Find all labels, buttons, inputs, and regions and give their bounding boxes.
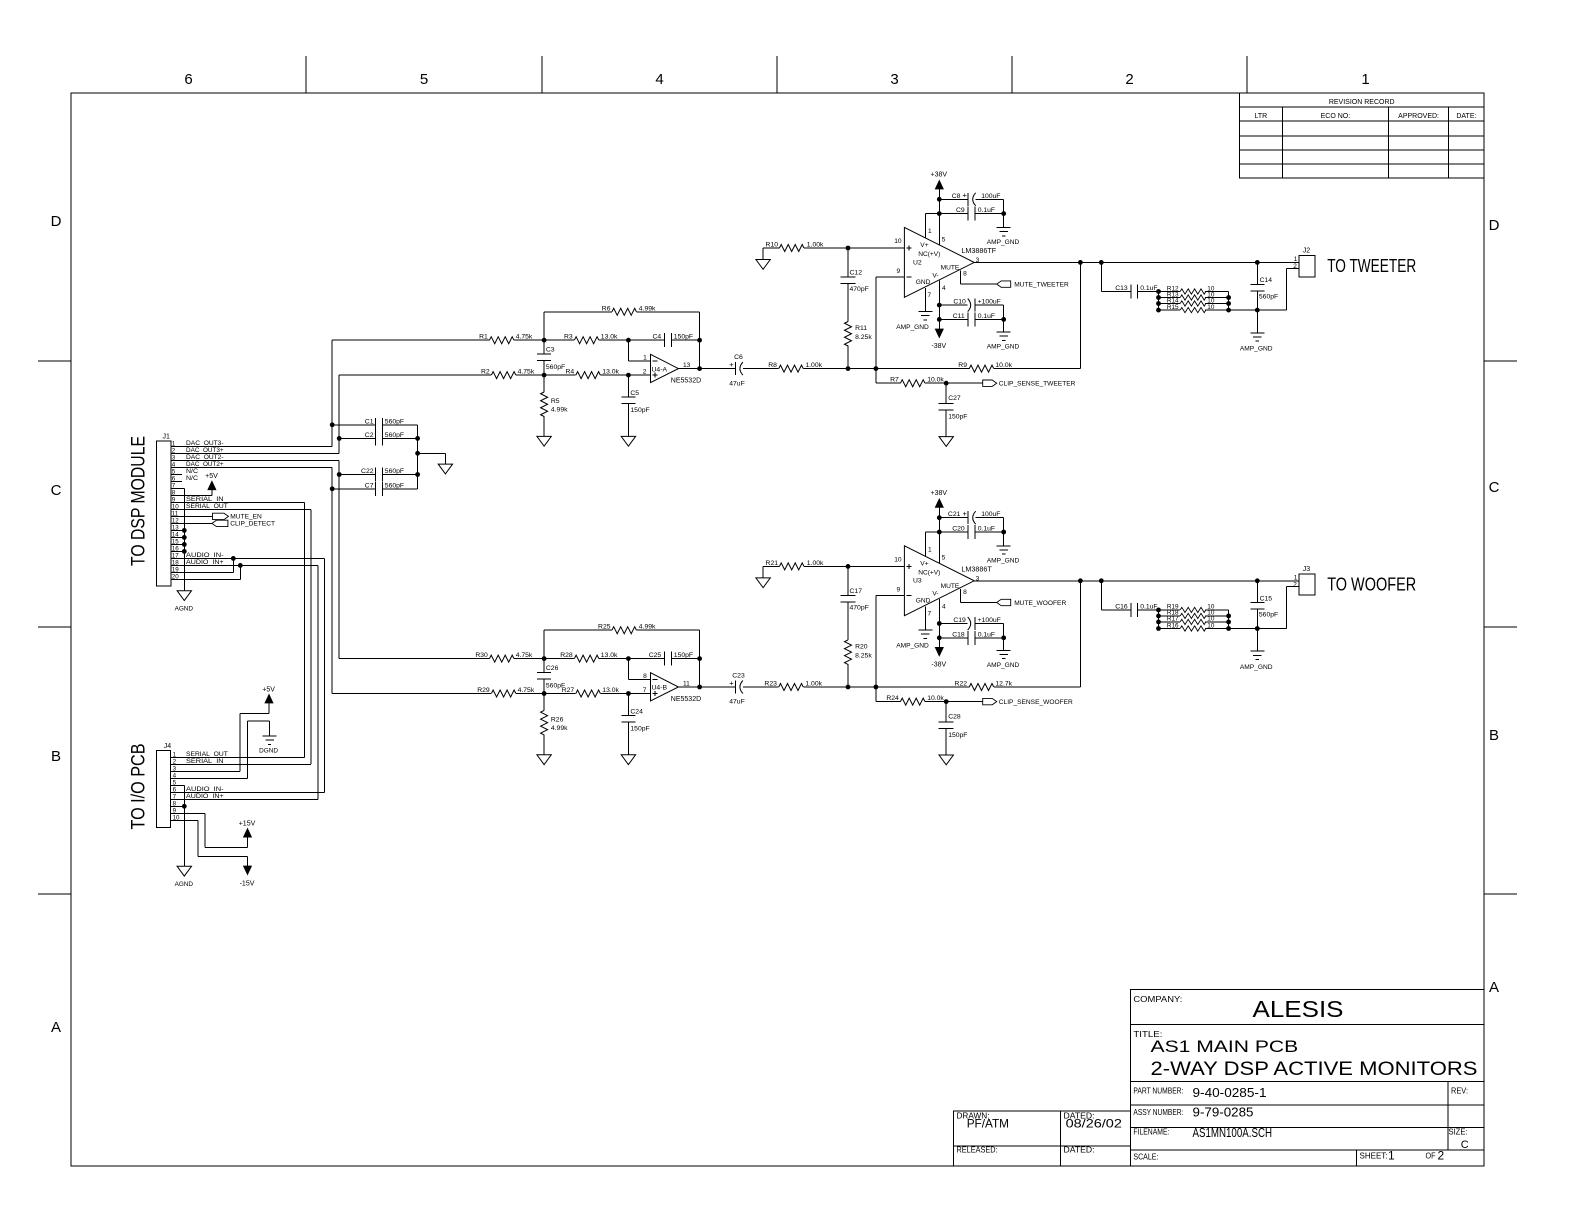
label TO WOOFER [1327,573,1416,594]
power +5V at J4 [262,686,275,703]
svg-text:1: 1 [1294,256,1298,263]
svg-text:560pF: 560pF [385,468,404,475]
svg-text:C12: C12 [850,270,863,277]
power +38V [931,490,948,508]
resistor R19 10 [1159,604,1229,613]
svg-text:12.7k: 12.7k [995,681,1012,688]
bus A DAC_OUT3- vertical to R1 and C1 [330,340,335,446]
wire J1 pin3 DAC_OUT2- to bus C [171,459,339,461]
wire J4 pin10 to -15V [171,820,248,866]
svg-text:150pF: 150pF [674,334,693,341]
svg-text:AGND: AGND [175,881,194,888]
capacitor C2 560pF [339,431,417,445]
svg-text:R8: R8 [768,362,777,369]
capacitor C16 0.1uF zobel [1101,581,1158,617]
svg-text:C25: C25 [649,652,662,659]
wire ladder left rail [1156,289,1161,312]
svg-text:LM3886TF: LM3886TF [961,246,996,255]
svg-text:C16: C16 [1115,603,1128,610]
resistor R2 4.75k [481,369,535,379]
label TO I/O PCB [129,744,150,830]
svg-text:R30: R30 [475,652,488,659]
svg-text:J3: J3 [1303,566,1311,573]
wire R30 to node A [514,656,546,661]
wire J1 pin6 stub [171,480,182,482]
zone row letters left [51,213,62,1036]
svg-text:R10: R10 [766,242,779,249]
svg-text:MUTE_EN: MUTE_EN [230,514,262,521]
svg-text:13.0k: 13.0k [601,334,618,341]
svg-text:U4-B: U4-B [652,685,668,692]
wire ladder left rail [1156,608,1161,631]
ground under C27 [939,437,953,447]
filename row [1133,1126,1468,1151]
wire pin 1 to bypass rail [925,532,939,556]
svg-text:TO DSP MODULE: TO DSP MODULE [129,436,150,566]
svg-text:AMP_GND: AMP_GND [987,343,1020,350]
resistor R12 10 [1159,285,1229,294]
svg-text:MUTE: MUTE [941,583,960,590]
connector J4 TO I/O PCB [157,743,180,828]
svg-text:1.00k: 1.00k [805,681,822,688]
svg-text:R27: R27 [562,687,575,694]
capacitor C22 560pF [339,468,417,482]
wire feedback vertical to output node [697,312,702,371]
scale sheet row [1133,1149,1444,1163]
bus C DAC_OUT2- vertical to R30 and C22 [337,460,342,658]
svg-text:LM3886T: LM3886T [961,564,992,573]
svg-text:9: 9 [897,586,901,593]
svg-text:C: C [51,482,62,499]
wire cap bank ground branch [418,453,446,464]
svg-text:0.1uF: 0.1uF [978,526,995,533]
revision record table [1239,93,1484,178]
svg-text:R20: R20 [855,643,868,650]
svg-text:NE5532D: NE5532D [671,377,701,384]
svg-text:NC(+V): NC(+V) [918,569,940,576]
svg-text:8: 8 [963,270,967,277]
svg-text:6: 6 [184,71,192,88]
part number row [1133,1086,1468,1100]
net tag MUTE_TWEETER [997,281,1069,289]
svg-text:13.0k: 13.0k [602,687,619,694]
svg-text:TO TWEETER: TO TWEETER [1327,255,1416,276]
capacitor C23 47uF [729,672,778,705]
wire op-amp output to node C [678,686,735,688]
ground under R5 [537,436,551,446]
svg-text:AMP_GND: AMP_GND [896,642,929,649]
capacitor C7 560pF [332,482,417,496]
wire pin 7 GND to AMP_GND [924,606,926,630]
svg-text:ASSY NUMBER:: ASSY NUMBER: [1133,1108,1183,1117]
capacitor C14 560pF [1250,262,1278,310]
svg-text:R22: R22 [955,681,968,688]
wire shunt to AMP_GND [1256,310,1258,333]
svg-text:100uF: 100uF [981,193,1000,200]
svg-text:FILENAME:: FILENAME: [1133,1128,1169,1137]
svg-text:R11: R11 [855,325,867,332]
svg-text:C2: C2 [365,432,374,439]
svg-text:C17: C17 [850,588,863,595]
svg-text:AS1MN100A.SCH: AS1MN100A.SCH [1193,1126,1273,1140]
resistor R7 10.0k [876,377,949,387]
svg-text:4: 4 [942,604,946,611]
power -15V [240,866,255,888]
svg-text:R16: R16 [1167,622,1179,629]
capacitor C24 150pF to ground [621,694,649,755]
svg-text:C26: C26 [546,665,559,672]
wire pin 4 V- to negative bypass rail [937,280,942,330]
svg-text:+: + [963,191,968,200]
svg-text:10.0k: 10.0k [927,377,944,384]
svg-text:DATED:: DATED: [1064,1145,1095,1154]
wire J1 pin4 DAC_OUT2+ to bus D [171,466,332,468]
ground under R26 [537,755,551,765]
svg-text:0.1uF: 0.1uF [1140,285,1157,292]
svg-text:4.99k: 4.99k [551,407,568,414]
resistor R15 10 [1159,304,1229,313]
wire shunt to AMP_GND [1256,629,1258,652]
power amp U3 LM3886T [894,546,992,618]
resistor R11 8.25k [845,284,873,369]
svg-text:COMPANY:: COMPANY: [1133,995,1182,1004]
wire J1 pin1 DAC_OUT3- to bus A [171,445,332,447]
wire J4 pin5 to AGND rail [171,784,185,786]
svg-text:13.0k: 13.0k [601,652,618,659]
svg-text:+5V: +5V [262,686,275,693]
wire node B to op-amp pin 8 [628,659,650,680]
power +38V [931,172,948,190]
wire J4 pin8 to AGND rail junction [171,785,187,866]
ground AMP_GND output network [1240,333,1273,353]
capacitor C27 150pF [939,383,968,436]
svg-text:R23: R23 [764,681,777,688]
svg-text:C: C [1461,1139,1469,1151]
ground AMP_GND negative bypass [987,332,1020,351]
svg-text:1.00k: 1.00k [805,362,822,369]
wire bypass caps to AMP_GND top [1001,518,1006,546]
svg-text:+: + [729,678,734,687]
svg-text:C14: C14 [1260,277,1273,284]
wire J1 pin19 tie to pin17 [171,558,234,572]
resistor R5 4.99k to ground [541,375,569,436]
wire J1 pin5 stub [171,473,182,475]
svg-text:C27: C27 [948,395,961,402]
svg-text:R15: R15 [1167,304,1179,311]
resistor R10 1.00k from ground [763,242,904,252]
ground AMP_GND output network [1240,651,1273,671]
svg-text:J2: J2 [1303,248,1311,255]
svg-text:R24: R24 [886,695,899,702]
ground AGND under J1 [175,591,194,613]
svg-text:5: 5 [942,236,946,243]
net tag MUTE_WOOFER [997,599,1067,607]
svg-text:R29: R29 [477,687,490,694]
svg-text:-38V: -38V [931,661,946,668]
svg-text:10: 10 [1207,622,1215,629]
svg-text:-38V: -38V [931,343,946,350]
svg-text:8: 8 [963,589,967,596]
svg-text:C9: C9 [956,207,965,214]
capacitor C26 560pF [537,659,565,694]
svg-text:10: 10 [1207,304,1215,311]
resistor R9 10.0k feedback [958,262,1080,372]
wire J1 pin8 to +5V [171,490,212,496]
capacitor C5 150pF to ground [621,375,649,436]
capacitor C6 47uF [729,354,778,387]
svg-text:150pF: 150pF [948,732,967,739]
ground AMP_GND negative bypass [987,650,1020,669]
label TO DSP MODULE [129,436,150,566]
wire input- row to R2 [339,374,491,376]
svg-text:A: A [1489,979,1499,996]
wire to summing junctions [804,366,970,371]
connector J2 output [1287,248,1315,277]
svg-text:REV:: REV: [1451,1087,1468,1096]
zone row ticks left [38,361,71,894]
wire J1 pin10 SERIAL_OUT vertical to J4 [171,509,311,764]
svg-text:4.75k: 4.75k [516,652,533,659]
wire ladder bottom to cap and connector pin2 [1229,587,1287,631]
capacitor C19 100uF [939,617,1003,630]
wire J1 pin7 to AGND rail [171,487,185,489]
wire MUTE pin 8 to MUTE_WOOFER tag [960,589,996,603]
svg-text:ECO NO:: ECO NO: [1321,113,1351,120]
svg-text:R21: R21 [766,560,779,567]
svg-text:U2: U2 [913,259,922,266]
capacitor C17 470pF [841,566,869,611]
resistor R26 4.99k to ground [541,694,569,755]
svg-text:AS1 MAIN PCB: AS1 MAIN PCB [1151,1037,1299,1056]
resistor R20 8.25k [845,602,873,687]
svg-text:R1: R1 [479,334,488,341]
svg-text:9-79-0285: 9-79-0285 [1193,1105,1254,1119]
svg-text:1: 1 [928,228,932,235]
svg-text:C5: C5 [630,390,639,397]
svg-text:3: 3 [976,257,980,264]
wire J1 pin2 DAC_OUT3+ to bus B [171,452,339,454]
wire pin 1 to bypass rail [925,214,939,238]
wire node E to op-amp pin 2 [628,374,650,376]
resistor R8 1.00k [768,362,822,372]
svg-text:C: C [1489,479,1500,496]
capacitor C3 560pF [537,340,565,375]
svg-text:R26: R26 [551,716,564,723]
wire inverting input vertical [876,596,905,702]
svg-text:470pF: 470pF [850,286,869,293]
wire J4 pin2 SERIAL_IN [171,763,311,765]
zone row ticks right [1484,361,1517,894]
svg-text:C3: C3 [546,347,555,354]
svg-text:08/26/02: 08/26/02 [1066,1117,1123,1131]
capacitor C25 150pF [628,652,699,666]
svg-text:1: 1 [1294,574,1298,581]
svg-text:0.1uF: 0.1uF [978,313,995,320]
resistor R25 4.99k feedback [544,624,700,659]
wire J1 pin20 tie to pin18 [171,565,241,579]
resistor R21 1.00k from ground [763,560,904,570]
svg-text:AMP_GND: AMP_GND [987,662,1020,669]
svg-text:CLIP_SENSE_TWEETER: CLIP_SENSE_TWEETER [999,381,1076,388]
svg-text:C11: C11 [953,313,965,320]
svg-text:10: 10 [894,238,902,245]
wire input+ row to R30 [339,658,489,660]
svg-text:A: A [51,1019,61,1036]
resistor R28 13.0k [544,652,618,662]
bus B DAC_OUT3+ vertical to R2 and C2 [337,375,342,453]
svg-text:DATE:: DATE: [1456,113,1476,120]
svg-text:R5: R5 [551,398,560,405]
resistor R23 1.00k [764,681,822,691]
wire R28 to node B [599,656,631,661]
svg-text:3: 3 [976,575,980,582]
svg-text:3: 3 [890,71,898,88]
capacitor C28 150pF [939,702,968,755]
svg-text:OF: OF [1426,1151,1436,1160]
wire J4 pin7 AUDIO_IN+ [171,798,318,800]
svg-text:AGND: AGND [175,606,194,613]
wire MUTE pin 8 to MUTE_TWEETER tag [960,270,996,284]
title text [1133,1030,1477,1080]
resistor R30 4.75k [475,652,533,662]
svg-text:D: D [1489,217,1500,234]
svg-text:U3: U3 [913,578,922,585]
label TO TWEETER [1327,255,1416,276]
svg-text:560pF: 560pF [546,364,565,371]
svg-text:R4: R4 [565,369,574,376]
svg-text:MUTE: MUTE [941,265,960,272]
svg-text:C10: C10 [953,299,966,306]
svg-text:7: 7 [928,610,932,617]
svg-text:560pF: 560pF [385,482,404,489]
svg-text:C21: C21 [948,511,961,518]
ground under C24 [621,755,635,765]
svg-text:GND: GND [916,279,931,286]
resistor R17 10 [1159,616,1229,625]
svg-text:9-40-0285-1: 9-40-0285-1 [1193,1086,1267,1100]
resistor R3 13.0k [544,334,618,344]
wire to CLIP_SENSE_TWEETER tag [946,382,983,384]
wire J4 pin9 to +15V [171,813,248,847]
svg-text:C20: C20 [952,526,965,533]
wire R29 to node D [516,691,546,696]
wire input- row to R29 [332,693,491,695]
net tag CLIP_DETECT [212,520,275,528]
wire R2 to node D [516,373,546,378]
wire J1 pin18 AUDIO_IN+ to J4 pin7 [171,563,318,799]
svg-text:100uF: 100uF [981,511,1000,518]
svg-text:150pF: 150pF [948,413,967,420]
svg-text:+38V: +38V [931,490,948,497]
capacitor C8 100uF [939,191,1003,206]
svg-text:10.0k: 10.0k [927,695,944,702]
capacitor C11 0.1uF [939,312,1003,326]
svg-text:TO I/O PCB: TO I/O PCB [129,744,150,830]
company logo ALESIS [1133,995,1343,1022]
wire input+ row to R1 [332,339,489,341]
wire inverting input vertical [876,277,905,383]
wire J1 pin9 SERIAL_IN vertical to J4 [171,502,305,757]
drawn dated released block [957,1111,1123,1154]
capacitor C18 0.1uF [939,631,1003,645]
wire +38V rail into pin 5 [937,507,942,563]
wire J1 pin11 to MUTE_EN tag [171,515,213,517]
op-amp U4-B NE5532D [643,673,701,703]
svg-text:4.75k: 4.75k [518,369,535,376]
wire +38V rail into pin 5 [937,189,942,245]
svg-text:560pF: 560pF [1259,293,1278,300]
svg-text:13: 13 [683,362,691,369]
J1 pin net name labels [186,440,228,566]
svg-text:1: 1 [1361,71,1369,88]
resistor R24 10.0k [876,695,949,705]
svg-text:C8: C8 [952,193,961,200]
svg-text:+: + [729,360,734,369]
svg-text:2: 2 [1293,581,1297,588]
svg-text:CLIP_DETECT: CLIP_DETECT [230,521,275,528]
svg-text:SCALE:: SCALE: [1133,1153,1158,1162]
svg-text:560pF: 560pF [385,432,404,439]
svg-text:ALESIS: ALESIS [1253,996,1344,1022]
svg-text:+38V: +38V [931,172,948,179]
svg-text:B: B [51,748,61,765]
wire R4 to node E [601,373,631,378]
svg-text:C4: C4 [652,334,661,341]
wire J4 pin4 to DGND [171,721,270,778]
svg-text:J1: J1 [163,433,171,440]
svg-text:V-: V- [932,272,938,279]
svg-text:V+: V+ [920,560,928,567]
svg-text:NC(+V): NC(+V) [918,251,940,258]
capacitor C21 100uF [939,509,1003,524]
J4 pin net name labels [186,751,228,800]
svg-text:7: 7 [928,292,932,299]
svg-text:C7: C7 [365,482,374,489]
svg-text:AMP_GND: AMP_GND [987,557,1020,564]
wires J1 pins13-16 stubs to AGND rail [171,530,185,551]
svg-text:NE5532D: NE5532D [671,696,701,703]
assy number row [1133,1105,1253,1119]
ground under C5 [621,436,635,446]
svg-text:AMP_GND: AMP_GND [987,239,1020,246]
capacitor C1 560pF [332,418,417,432]
svg-text:4.99k: 4.99k [639,305,656,312]
svg-text:10.0k: 10.0k [995,362,1012,369]
svg-text:4.75k: 4.75k [516,334,533,341]
svg-text:560pF: 560pF [385,418,404,425]
svg-text:0.1uF: 0.1uF [1140,603,1157,610]
svg-text:R2: R2 [481,369,490,376]
resistor R4 13.0k [544,369,619,379]
wire ladder bottom to cap and connector pin2 [1229,268,1287,312]
svg-text:RELEASED:: RELEASED: [957,1145,998,1154]
svg-text:C13: C13 [1115,285,1128,292]
svg-text:C24: C24 [630,708,643,715]
svg-text:R7: R7 [890,377,899,384]
svg-text:APPROVED:: APPROVED: [1398,113,1439,120]
svg-text:C1: C1 [365,418,374,425]
connector J3 output [1287,566,1315,595]
svg-text:5: 5 [942,555,946,562]
svg-text:8: 8 [643,673,647,680]
resistor R29 4.75k [477,687,535,697]
svg-text:2-WAY DSP ACTIVE MONITORS: 2-WAY DSP ACTIVE MONITORS [1151,1058,1478,1080]
ground AMP_GND top bypass [987,546,1020,565]
wire to CLIP_SENSE_WOOFER tag [946,701,983,703]
capacitor C4 150pF [628,333,699,347]
svg-text:N/C: N/C [186,468,198,475]
svg-text:PART NUMBER:: PART NUMBER: [1133,1087,1183,1096]
